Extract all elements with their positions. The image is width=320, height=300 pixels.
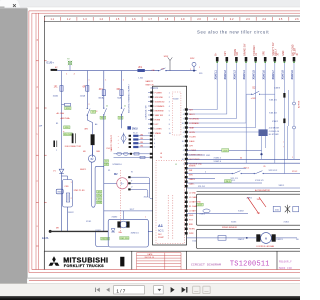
controller box A1 [153, 86, 187, 245]
svg-text:4: 4 [183, 150, 184, 152]
svg-text:CONTROLLER FAN: CONTROLLER FAN [256, 245, 275, 248]
svg-text:5: 5 [154, 147, 155, 149]
svg-text:DISCONNECTOR: DISCONNECTOR [65, 146, 82, 148]
pin 4 [245, 57, 248, 61]
label Z1 [118, 116, 123, 119]
svg-text:1.3: 1.3 [83, 17, 87, 21]
label J2a [97, 190, 102, 193]
svg-text:10: 10 [182, 123, 184, 125]
svg-text:DM1/2: DM1/2 [238, 239, 245, 241]
page input [114, 286, 145, 294]
svg-text:EL.STEER: EL.STEER [269, 134, 279, 136]
motor leads [128, 176, 130, 178]
schematic border [44, 15, 300, 17]
lower right pins [185, 192, 188, 194]
svg-text:J1: J1 [175, 164, 177, 166]
label J2b [97, 198, 102, 201]
svg-text:SAFETY: SAFETY [145, 80, 153, 83]
svg-text:1R4: 1R4 [140, 142, 143, 144]
svg-text:B2 POS: B2 POS [298, 100, 300, 108]
svg-text:B1: B1 [56, 123, 58, 125]
svg-text:X1M/1.9: X1M/1.9 [291, 70, 294, 80]
svg-text:8: 8 [169, 124, 170, 126]
long bus rows [187, 158, 300, 160]
label 24.3 [222, 149, 229, 152]
svg-text:X13/2: X13/2 [95, 230, 101, 232]
svg-text:SPARE: SPARE [155, 132, 162, 135]
label Z2 [104, 160, 109, 163]
label Z1 [91, 110, 96, 113]
svg-text:FORWARD: FORWARD [189, 122, 199, 125]
svg-text:X0M/2: X0M/2 [112, 217, 119, 219]
label Z15/J15 [101, 237, 110, 240]
svg-text:M2: M2 [114, 173, 118, 176]
svg-text:X1M/1.5: X1M/1.5 [253, 70, 256, 80]
svg-text:2.2: 2.2 [230, 17, 234, 21]
svg-text:85: 85 [264, 166, 266, 168]
disconnect switch bars [72, 133, 74, 143]
console lower row [114, 153, 150, 155]
console connector 1M1 [127, 126, 131, 129]
pin 7 [274, 57, 277, 61]
svg-text:21: 21 [106, 106, 108, 108]
pin 1 [216, 57, 219, 61]
U loop wire [92, 162, 104, 207]
svg-text:X18/4: X18/4 [284, 222, 290, 224]
accelerator module box [197, 191, 301, 193]
svg-text:1.4: 1.4 [99, 17, 103, 21]
tag Z17 [197, 203, 203, 206]
tab bar [0, 0, 300, 8]
svg-text:1.6A: 1.6A [138, 76, 143, 79]
frame inner red [32, 12, 300, 14]
svg-text:SPEED SENSOR: SPEED SENSOR [222, 227, 238, 229]
svg-text:X1Z/-: X1Z/- [144, 197, 150, 199]
svg-text:E1/B-: E1/B- [42, 236, 49, 240]
nav first-page icon [96, 288, 99, 292]
svg-text:↑: ↑ [283, 146, 284, 149]
inner dashed rails [167, 195, 169, 240]
tiller wires into controller [188, 63, 217, 110]
svg-text:X18/1: X18/1 [200, 213, 206, 215]
svg-text:M8: M8 [56, 228, 59, 230]
svg-text:X18/2: X18/2 [238, 210, 244, 212]
label Z24 [65, 107, 72, 110]
svg-text:NA: NA [119, 231, 123, 234]
label 610 [100, 116, 106, 119]
disabled icon 1 [193, 286, 200, 293]
svg-text:HORN: HORN [189, 229, 195, 231]
svg-text:10: 10 [169, 133, 171, 135]
module EB1 [56, 189, 63, 194]
svg-text:1.7: 1.7 [148, 17, 152, 21]
svg-text:7: 7 [169, 119, 170, 121]
svg-text:SEAT SW: SEAT SW [155, 114, 164, 117]
svg-text:ELECTRIC STEERING SUPPLY: ELECTRIC STEERING SUPPLY [128, 83, 130, 113]
svg-text:1: 1 [183, 127, 184, 129]
bottom dark strip [0, 296, 300, 300]
svg-text:1: 1 [105, 80, 106, 82]
mitsubishi logo diamonds [49, 256, 60, 266]
main bus [57, 70, 137, 72]
svg-text:2.4: 2.4 [262, 17, 266, 21]
net row 2 [187, 154, 205, 156]
svg-text:X11B/: X11B/ [173, 98, 179, 100]
pin 3 [235, 57, 238, 61]
label Z16 50R [64, 133, 73, 136]
svg-text:X1M/2.5: X1M/2.5 [214, 157, 222, 159]
svg-text:REVERSE: REVERSE [155, 110, 165, 112]
motor M2 [92, 145, 94, 155]
wire pin9b [287, 90, 289, 126]
drop 4F1 [103, 71, 105, 90]
connector X11B dashed [172, 92, 181, 135]
nav last icon [182, 287, 186, 293]
svg-text:A6: A6 [95, 123, 97, 126]
svg-text:1: 1 [123, 80, 124, 82]
svg-text:X13.2: X13.2 [292, 171, 298, 173]
svg-text:SEAT: SEAT [189, 126, 195, 129]
svg-text:4: 4 [169, 106, 170, 108]
svg-text:7: 7 [183, 154, 184, 156]
net row direction [187, 177, 215, 179]
nav prev icon [106, 288, 109, 292]
svg-text:AM.250A: AM.250A [61, 117, 71, 120]
svg-text:EMC1: EMC1 [80, 169, 87, 171]
svg-text:GND: GND [283, 50, 285, 55]
wire pin7 [274, 63, 276, 163]
svg-text:1.2: 1.2 [67, 17, 71, 21]
svg-text:AL.16A: AL.16A [57, 112, 65, 115]
svg-text:3: 3 [154, 139, 155, 141]
svg-text:7: 7 [183, 118, 184, 120]
pin 8 [283, 57, 286, 61]
batt gnd wire [187, 213, 248, 215]
svg-text:X213.1/2: X213.1/2 [269, 170, 279, 172]
toolbar [0, 284, 300, 296]
block mark [120, 257, 124, 267]
svg-text:1.5: 1.5 [116, 17, 120, 21]
key switch S1 [192, 62, 196, 66]
svg-text:4-W MODE: 4-W MODE [269, 128, 280, 130]
svg-text:1M1/2: 1M1/2 [68, 212, 74, 214]
pump motor [117, 221, 120, 227]
svg-text:CODE 1-10: CODE 1-10 [269, 131, 280, 133]
fan M3 [256, 234, 260, 241]
svg-text:SOLENOID: SOLENOID [155, 101, 165, 103]
svg-text:1R4: 1R4 [140, 134, 143, 136]
svg-text:M6: M6 [83, 151, 86, 153]
svg-text:GROUND: GROUND [155, 97, 164, 99]
svg-text:3~: 3~ [121, 182, 125, 186]
pin 9 [293, 57, 296, 61]
relay J7 [203, 209, 210, 213]
zener [287, 205, 289, 214]
svg-text:L1 BATT: L1 BATT [189, 210, 197, 213]
console lower row 2 [114, 156, 150, 158]
svg-text:See also the new tiller circui: See also the new tiller circuit [197, 30, 269, 35]
svg-text:1: 1 [183, 145, 184, 147]
svg-text:F2: F2 [67, 59, 69, 61]
svg-text:2AF/2: 2AF/2 [247, 197, 253, 200]
svg-text:24: 24 [160, 157, 162, 159]
svg-text:X1B/2: X1B/2 [272, 121, 279, 123]
pin 5 [254, 57, 257, 61]
svg-text:FORKLIFT TRUCKS: FORKLIFT TRUCKS [64, 264, 104, 268]
viewer gray left margin [0, 8, 27, 283]
net rows right of controller [187, 150, 222, 152]
svg-text:1R4: 1R4 [140, 146, 143, 148]
svg-text:PUMP: PUMP [158, 237, 164, 239]
svg-text:STM6110: STM6110 [112, 164, 122, 166]
shunt bar [91, 134, 95, 145]
svg-text:X11.2/4: X11.2/4 [198, 186, 206, 188]
svg-text:B.ALE: B.ALE [189, 140, 195, 143]
svg-text:1: 1 [71, 182, 72, 184]
svg-text:1: 1 [89, 80, 90, 82]
svg-text:2007.01.10: 2007.01.10 [145, 257, 154, 259]
svg-text:1: 1 [292, 157, 293, 159]
svg-text:2: 2 [89, 104, 90, 106]
console diamond [121, 134, 126, 143]
tab title dash [0, 7, 5, 8]
svg-text:X1B/3: X1B/3 [274, 88, 281, 90]
svg-text:2: 2 [190, 69, 191, 71]
svg-text:BELLY: BELLY [189, 114, 195, 116]
svg-text:1.1: 1.1 [50, 17, 54, 21]
svg-text:HORN: HORN [155, 119, 161, 121]
svg-text:Z16 50R: Z16 50R [64, 134, 72, 136]
border ticks [44, 60, 46, 62]
svg-text:FORWARD: FORWARD [155, 105, 165, 108]
wire pin9 [293, 63, 295, 159]
bus into pump box [148, 230, 152, 232]
svg-text:7: 7 [183, 136, 184, 138]
tab close x [13, 4, 16, 7]
svg-text:2.1: 2.1 [213, 17, 217, 21]
svg-text:S28/: S28/ [190, 58, 195, 60]
svg-text:CIRCUIT DIAGRAM: CIRCUIT DIAGRAM [191, 263, 221, 267]
frame outer red [29, 10, 300, 12]
svg-text:300A: 300A [98, 96, 104, 99]
page gap [27, 278, 300, 279]
svg-text:KEY: KEY [225, 51, 227, 56]
svg-text:5: 5 [169, 110, 170, 112]
riser to X13 [96, 232, 109, 247]
pump unit box [108, 219, 148, 247]
svg-text:2: 2 [71, 198, 72, 200]
label J16 [64, 126, 71, 129]
svg-text:X1: X1 [108, 170, 110, 172]
svg-text:+OFF: +OFF [251, 98, 257, 100]
svg-text:X1M/1.4: X1M/1.4 [243, 70, 246, 80]
A3 dashed module [156, 161, 184, 244]
svg-text:HORN: HORN [189, 132, 195, 134]
svg-text:9: 9 [169, 128, 170, 130]
svg-text:2.3: 2.3 [246, 17, 250, 21]
mid right pins [185, 167, 188, 169]
label J2 [104, 163, 109, 166]
svg-text:30: 30 [240, 157, 242, 159]
contactor feed [67, 176, 69, 180]
svg-text:X81/1: X81/1 [279, 185, 285, 187]
svg-text:DM1/1: DM1/1 [276, 239, 283, 241]
svg-text:X1M/1.6: X1M/1.6 [262, 70, 265, 80]
label 1M1 220 [120, 237, 129, 240]
contactor CB1 box [62, 180, 72, 208]
svg-text:L1 GND: L1 GND [189, 193, 196, 195]
svg-text:10: 10 [182, 141, 184, 143]
svg-text:S.WIRE GND 1: S.WIRE GND 1 [189, 154, 202, 156]
svg-text:X1M/1.7: X1M/1.7 [272, 70, 275, 80]
svg-text:X1M/2.6: X1M/2.6 [214, 161, 222, 163]
net row steering [187, 167, 246, 169]
svg-text:BRAKE SW: BRAKE SW [243, 43, 246, 56]
svg-text:3: 3 [169, 101, 170, 103]
pdf page [27, 7, 300, 278]
svg-text:X1M/1.8: X1M/1.8 [282, 70, 285, 80]
svg-text:2.0: 2.0 [197, 17, 201, 21]
svg-text:E1/B+: E1/B+ [47, 60, 55, 64]
svg-text:X1M/1.3: X1M/1.3 [234, 70, 237, 80]
svg-text:X0M/1.5: X0M/1.5 [131, 233, 140, 235]
svg-text:1: 1 [199, 67, 200, 69]
drop 6F1 [86, 71, 88, 86]
svg-text:L8: L8 [160, 153, 162, 155]
zoom dropdown [154, 286, 164, 294]
svg-text:POWER: POWER [155, 92, 163, 94]
svg-text:1: 1 [169, 92, 170, 94]
svg-text:1: 1 [145, 217, 146, 219]
svg-text:W: W [131, 172, 133, 174]
svg-text:1: 1 [183, 163, 184, 165]
svg-text:1M1/: 1M1/ [132, 127, 138, 131]
pin 2 [226, 57, 229, 61]
svg-text:X1.1/: X1.1/ [133, 132, 138, 134]
svg-text:PWR: PWR [189, 233, 194, 235]
disconnect pole 2 [53, 141, 55, 148]
svg-text:50A: 50A [117, 96, 121, 99]
svg-text:SPD: SPD [264, 51, 266, 56]
svg-text:AC-1: AC-1 [158, 229, 164, 232]
svg-text:1.6: 1.6 [132, 17, 136, 21]
svg-text:1R4: 1R4 [140, 138, 143, 140]
svg-text:X1B.1/1: X1B.1/1 [269, 99, 278, 101]
keypad drop wires [261, 136, 263, 160]
svg-text:2: 2 [154, 136, 155, 138]
left drop 1F1 [61, 71, 63, 86]
svg-text:X113.1/1: X113.1/1 [255, 180, 264, 182]
net row can [187, 182, 262, 184]
disabled icon 2 [203, 286, 210, 293]
svg-text:X11C/1: X11C/1 [150, 88, 158, 90]
svg-text:CONSOLE / DT: CONSOLE / DT [145, 105, 147, 120]
svg-text:4: 4 [154, 143, 155, 145]
active tab [0, 0, 21, 8]
svg-text:1M1 220: 1M1 220 [120, 238, 129, 240]
svg-text:100A: 100A [53, 94, 59, 97]
svg-text:X1M/1.2: X1M/1.2 [224, 70, 227, 80]
svg-text:2.6: 2.6 [295, 17, 299, 21]
title block dividers [43, 251, 45, 269]
revision table [137, 252, 182, 254]
svg-text:SPD: SPD [189, 175, 194, 177]
svg-text:4: 4 [183, 114, 184, 116]
fan module box [197, 229, 305, 248]
wire X1B col [287, 126, 289, 159]
svg-text:X13/1: X13/1 [86, 221, 92, 223]
svg-text:X1M/1.1: X1M/1.1 [214, 70, 217, 80]
pin 6 [264, 57, 267, 61]
svg-text:21: 21 [124, 106, 126, 108]
svg-text:4: 4 [183, 132, 184, 134]
pump diode [111, 229, 115, 232]
nav next icon [171, 287, 175, 293]
svg-text:LOWER: LOWER [189, 150, 197, 152]
svg-text:GND: GND [189, 215, 194, 217]
svg-text:TILLER: TILLER [189, 136, 196, 138]
svg-text:STEER: STEER [189, 166, 196, 168]
svg-text:SAFETY CIRCUIT: SAFETY CIRCUIT [110, 134, 113, 151]
svg-text:2: 2 [169, 97, 170, 99]
svg-text:1 / 7: 1 / 7 [116, 288, 125, 293]
svg-text:2.5: 2.5 [279, 17, 283, 21]
svg-text:A1: A1 [158, 224, 163, 228]
svg-text:LOWER: LOWER [155, 128, 163, 130]
svg-text:DATE: DATE [148, 253, 154, 256]
svg-text:1.8: 1.8 [165, 17, 169, 21]
label Z2a [97, 194, 102, 197]
svg-text:TS1200511: TS1200511 [230, 260, 270, 268]
svg-text:100A: 100A [80, 94, 86, 97]
wire to keypad [245, 94, 247, 163]
keypad unit [259, 130, 268, 136]
label Z13 [97, 201, 102, 204]
svg-text:6: 6 [169, 115, 170, 117]
battery feed wire [51, 69, 58, 71]
svg-text:↑: ↑ [283, 141, 284, 144]
tap resistor [62, 104, 65, 106]
drop 6F1 50A [121, 71, 123, 90]
tabbar bottom hairline [0, 7, 300, 10]
svg-text:MAIN CIR: MAIN CIR [279, 267, 292, 270]
wire pin8 [283, 63, 285, 174]
svg-text:48V: 48V [84, 129, 88, 131]
svg-text:1.9: 1.9 [181, 17, 185, 21]
row index band [35, 13, 37, 269]
svg-text:1: 1 [183, 109, 184, 111]
svg-text:X1B.1/2: X1B.1/2 [269, 112, 278, 114]
svg-text:X11.1/1: X11.1/1 [231, 178, 239, 180]
bus E1/B- [49, 230, 52, 233]
dashed boundary [120, 170, 122, 231]
svg-text:X18/3: X18/3 [231, 222, 237, 224]
svg-text:SOLENOID: SOLENOID [189, 118, 199, 120]
lamp symbols [293, 102, 296, 105]
label Z4.1 [225, 180, 232, 183]
fuse F2 icon [68, 61, 72, 65]
svg-text:2/M1 P1.8S: 2/M1 P1.8S [74, 190, 85, 192]
svg-text:FB16KR,F: FB16KR,F [279, 260, 292, 263]
